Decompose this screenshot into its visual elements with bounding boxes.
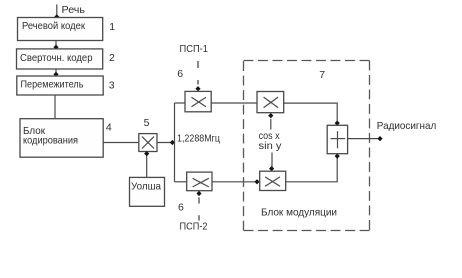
svg-text:Перемежитель: Перемежитель (21, 79, 84, 91)
svg-text:ПСП-2: ПСП-2 (180, 221, 208, 233)
block 3 Перемежитель (17, 76, 103, 95)
label 1,2288Мгц (177, 133, 220, 145)
wire sin multiplier to adder (286, 154, 340, 182)
wire sin carrier input (269, 153, 274, 172)
svg-text:7: 7 (319, 69, 325, 81)
svg-text:6: 6 (178, 202, 184, 214)
multiplier 6 upper (ПСП-1) (185, 91, 211, 111)
block Уолша (130, 177, 165, 206)
multiplier sin (Q-branch) (260, 171, 286, 190)
label 6 lower (178, 202, 184, 214)
wire box2 to box3 (53, 69, 58, 77)
node ПСП-2 label (180, 221, 208, 233)
node ПСП-1 label (180, 43, 209, 55)
svg-text:sin y: sin y (259, 140, 283, 152)
node Речь input label (62, 4, 86, 16)
label cos x (259, 130, 281, 142)
wire trunk to multiplier 6 upper (175, 102, 186, 104)
svg-text:3: 3 (109, 79, 115, 91)
svg-text:1: 1 (109, 21, 115, 33)
label 5 (144, 117, 150, 129)
block 2 Сверточн. кодер (17, 49, 103, 69)
multiplier 5 (139, 134, 157, 152)
label 1 (109, 21, 115, 33)
wire multiplier 6 lower to sin modulator (212, 179, 260, 184)
wire box3 to box4 (54, 95, 56, 119)
svg-text:Блок модуляции: Блок модуляции (261, 207, 337, 219)
wire cos carrier input (268, 113, 273, 130)
label 2 (109, 52, 115, 64)
wire cos multiplier to adder (284, 103, 340, 126)
label 7 (319, 69, 325, 81)
svg-text:Речь: Речь (62, 4, 86, 16)
label 3 (109, 79, 115, 91)
wire adder output Радиосигнал (348, 136, 383, 141)
svg-text:4: 4 (106, 122, 112, 134)
label 6 upper (177, 68, 183, 80)
wire Речь input (54, 5, 59, 20)
svg-text:Радиосигнал: Радиосигнал (377, 120, 437, 132)
wire multiplier 6 upper to cos modulator (211, 102, 257, 104)
multiplier 6 lower (ПСП-2) (187, 172, 212, 191)
label sin y (259, 140, 283, 152)
wire dashed ПСП-1 to multiplier (195, 61, 200, 91)
wire Уолша to multiplier 5 (144, 151, 149, 177)
svg-text:Речевой кодек: Речевой кодек (22, 20, 85, 32)
svg-text:6: 6 (177, 68, 183, 80)
svg-text:кодирования: кодирования (23, 134, 78, 146)
svg-text:ПСП-1: ПСП-1 (180, 43, 209, 55)
wire box1 to box2 (53, 41, 58, 50)
svg-text:Уолша: Уолша (131, 180, 161, 192)
wire dashed ПСП-2 to multiplier (196, 191, 201, 221)
block 1 Речевой кодек (18, 18, 103, 41)
block 7 dashed Блок модуляции (244, 61, 370, 231)
label Блок модуляции (261, 207, 337, 219)
wire multiplier 5 output to trunk (157, 140, 175, 145)
wire trunk to multiplier 6 lower (175, 181, 187, 183)
svg-text:Сверточн. кодер: Сверточн. кодер (20, 52, 93, 64)
svg-text:5: 5 (144, 117, 150, 129)
node Радиосигнал label (377, 120, 437, 132)
multiplier cos (I-branch) (257, 92, 284, 113)
adder (summer) (327, 125, 347, 153)
svg-text:1,2288Мгц: 1,2288Мгц (177, 133, 220, 145)
wire box4 to multiplier 5 (103, 142, 139, 144)
label 4 (106, 122, 112, 134)
wire trunk vertical (174, 103, 176, 182)
svg-text:2: 2 (109, 52, 115, 64)
block 4 Блок кодирования (20, 119, 103, 158)
